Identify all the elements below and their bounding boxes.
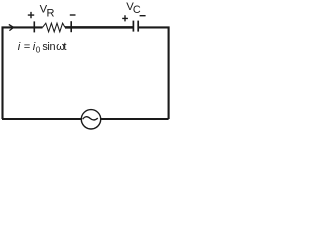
svg-text:sin: sin	[42, 41, 55, 53]
svg-text:0: 0	[36, 46, 41, 55]
svg-text:=: =	[24, 41, 31, 53]
svg-text:R: R	[47, 8, 55, 20]
svg-text:C: C	[133, 4, 141, 16]
